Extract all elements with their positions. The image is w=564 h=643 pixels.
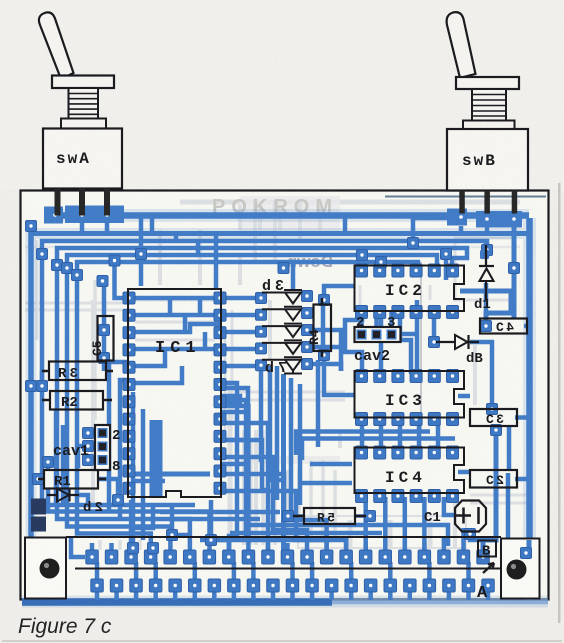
wire IC1 row6 — [129, 366, 182, 383]
label B with box — [478, 541, 496, 560]
swB pad group — [447, 209, 522, 228]
wire IC2-IC3 v2 — [400, 312, 411, 374]
wire IC1 right stair b — [222, 400, 246, 540]
mounting hole right box — [501, 539, 540, 599]
IC1 pad rows — [123, 292, 226, 494]
capacitor C4 — [480, 319, 527, 336]
diode d2 — [47, 489, 103, 517]
wire C1 bottom net — [470, 531, 483, 540]
label d7 (mirrored digit) — [265, 360, 287, 377]
wire d2 area drop — [46, 488, 51, 511]
wire IC1 bottom fan 1 — [129, 500, 134, 551]
capacitor C5 — [90, 316, 114, 361]
wire into right box — [521, 540, 532, 559]
wire d2 right stub — [79, 495, 88, 505]
wire swB right vertical — [512, 225, 517, 318]
wire R4 bottom net — [324, 354, 354, 395]
wire right lower vertical 1 — [483, 430, 496, 551]
switch swB — [447, 12, 528, 213]
wire left frame vertical — [28, 222, 34, 598]
label 1 with arrow — [483, 563, 494, 573]
wire R5 leads — [288, 514, 368, 518]
wire bus drop 1 — [150, 215, 155, 233]
wire IC2 right stub — [444, 254, 449, 280]
mounting hole left box — [25, 538, 66, 599]
wire IC1 right to diodes 4 — [220, 364, 258, 369]
wire R4 bottom drop — [316, 360, 321, 447]
wire bottom pad stubs down — [97, 590, 488, 600]
wire IC1 right stair a — [222, 383, 237, 551]
wire IC1 row3 — [129, 324, 220, 332]
IC1 — [128, 289, 221, 497]
edge connector bottom pad row — [91, 579, 495, 592]
wire bundle line D — [77, 262, 418, 273]
wire mid nested C2 — [222, 396, 240, 404]
IC2 — [355, 266, 465, 312]
edge connector region — [66, 537, 501, 569]
wire swB left pad stub — [459, 226, 464, 233]
wire diode row1 link — [220, 296, 258, 301]
wire lower mid h6 — [160, 510, 280, 515]
page edge shadow line right — [558, 183, 561, 623]
wire IC1 inner bottom horizontal 2 — [135, 479, 165, 484]
wire IC1 inner v1 — [131, 392, 136, 551]
wire R1 net — [46, 462, 51, 470]
wire staircase 3 — [220, 440, 268, 490]
wire top pad stubs up — [92, 528, 483, 551]
IC3 pad rows — [356, 370, 459, 426]
wire cav1 left link — [78, 446, 88, 468]
diode column d3-d7 — [262, 290, 302, 374]
wire C3 right to frame — [515, 415, 530, 420]
wire R1 right net — [98, 479, 118, 500]
connector top line — [66, 536, 501, 538]
wire dB left lead net — [432, 312, 437, 342]
wire d1 top — [484, 241, 489, 258]
wire bus drop 3 — [196, 241, 201, 256]
wire mid nested h4 — [310, 462, 352, 467]
wire C2 right to frame — [515, 477, 530, 482]
wire IC2 notch to IC3 — [415, 300, 420, 374]
switch swA — [39, 12, 122, 215]
wire IC1 inner bottom horizontal — [129, 472, 210, 477]
wire IC1 inner v2 — [141, 409, 146, 540]
wire lower mid h7 — [170, 517, 260, 522]
wire mid nested h5 — [300, 481, 352, 486]
wire lower mid horizontals — [48, 503, 195, 508]
diode d1 — [474, 245, 494, 313]
resistor R4 — [307, 298, 331, 357]
wire IC1 right to diodes 2 — [220, 330, 258, 335]
wire diode col drop 1 — [259, 370, 264, 462]
trace halos — [22, 216, 548, 602]
dark square pair lower-left — [31, 499, 46, 532]
wire staircase 1 — [220, 406, 248, 551]
wire IC1 row1 — [129, 296, 220, 301]
connector mid line — [75, 568, 501, 570]
wire diode right link 4 — [307, 364, 341, 371]
wire C4 right to frame — [524, 324, 530, 329]
wire bus drop 4 — [214, 233, 219, 289]
wire mid vertical v1 — [289, 378, 294, 516]
resistor R5 — [293, 508, 366, 526]
wire top bus T2 — [31, 231, 527, 236]
wire cav2 right — [398, 332, 417, 337]
wire staircase 2 — [220, 423, 268, 551]
wire long vertical x283 — [281, 374, 286, 551]
connector cav1 — [53, 425, 120, 475]
wire staircase 5 — [222, 474, 327, 551]
wire mid vertical v2 — [298, 384, 303, 505]
wire C3-C2 vertical — [507, 426, 512, 470]
wire IC1 row jog 4 — [203, 332, 208, 349]
wire IC1 row4 — [129, 347, 220, 352]
wire bus drop 2 — [174, 233, 179, 241]
wire d1 bottom to C4 — [484, 283, 489, 326]
wire left vertical x42 — [42, 252, 210, 551]
wire lower right horizontal 2 — [230, 531, 382, 536]
wire diode right link 2 — [307, 311, 314, 316]
wire bundle line B — [57, 248, 467, 266]
wire IC1 left col v1 — [109, 362, 129, 511]
wire IC2 top pad feeds — [362, 255, 400, 269]
wire top bus T1 — [47, 212, 529, 219]
wire staircase 4 — [220, 457, 307, 551]
wire pad stub x114 — [115, 262, 130, 298]
wire IC1 left col v2 — [120, 380, 129, 519]
wire IC1 row jog 1 — [198, 298, 203, 315]
wire mid nested C1 — [222, 388, 248, 412]
wire left vertical x57 — [57, 263, 190, 551]
edge connector top pad row — [86, 550, 490, 564]
wire R4 through trace — [321, 300, 326, 355]
capacitor C2 — [470, 470, 517, 488]
wire IC1 row jog 2 — [168, 298, 173, 315]
wire R2 down link — [54, 409, 59, 505]
wire lower right horizontal 1 — [248, 525, 448, 546]
IC4 pad rows — [356, 446, 459, 503]
wire IC1 right to diodes 1 — [220, 313, 258, 318]
wire left vertical x67 — [67, 266, 170, 551]
wire right frame vertical — [526, 218, 533, 600]
scan crease line — [420, 262, 422, 430]
connector cav2 — [354, 315, 401, 365]
wire T1-T2 link — [343, 215, 348, 233]
wire lower mid h8 — [200, 538, 330, 543]
wire IC1 right to diodes 3 — [220, 347, 258, 352]
wire IC3-IC4 bundle 2 — [302, 439, 455, 461]
wire right column into C4 — [486, 293, 511, 324]
wire IC1 feed top — [139, 218, 144, 286]
wire bottom bus right — [332, 599, 548, 605]
resistor R3 — [42, 362, 113, 383]
wire inter-row stubs — [97, 562, 469, 580]
resistor R1 — [38, 470, 106, 490]
wire IC4 notch to C2 — [458, 470, 470, 475]
wire IC1 bottom fan 4 — [211, 500, 229, 551]
resistor R2 — [42, 391, 112, 411]
wire IC2 notch to right column — [460, 289, 514, 294]
wire R3 left pad link — [40, 371, 45, 386]
wire left vertical x77 — [77, 273, 151, 551]
swA pad group — [44, 206, 124, 224]
wire IC1 row jog 3 — [183, 315, 188, 332]
label d3 (mirrored digit) — [262, 278, 284, 295]
page bottom faint line — [2, 640, 562, 642]
wire d3 anode feed — [291, 262, 296, 290]
wire diode col drop 2 — [270, 366, 283, 480]
wire mid nested C3 — [222, 440, 248, 464]
ghost traces layer — [25, 196, 528, 643]
IC2 pad rows — [356, 264, 459, 319]
board outline — [21, 191, 549, 600]
wire diode right net — [307, 330, 341, 371]
wire swB mid pad drop — [485, 227, 490, 233]
wire left mid vertical — [61, 425, 66, 505]
wire bundle line A — [42, 241, 487, 257]
wire R4 top net — [324, 286, 354, 300]
diode dB — [436, 335, 483, 367]
capacitor C1 — [424, 501, 486, 532]
wire connector left stub — [71, 538, 85, 557]
wire bundle line C — [67, 255, 437, 267]
capacitor C3 — [470, 409, 517, 427]
wire IC4 bottom fans — [366, 497, 425, 551]
wire dB right net — [470, 342, 492, 409]
wire diode right link 3 — [307, 345, 341, 350]
wire IC3 notch to C3 — [458, 394, 470, 399]
wire staircase 6 — [222, 491, 346, 551]
wire IC1 row5 — [129, 349, 165, 366]
wire IC2-IC3 v1 — [379, 312, 384, 374]
wire cav2 wrap — [345, 312, 362, 374]
wire IC1 row2 — [129, 313, 220, 318]
wire C5 through trace — [102, 283, 107, 371]
wire swB left pad drop — [413, 218, 452, 240]
wire bottom bus left — [22, 598, 332, 606]
wire swA pad stubs — [82, 222, 107, 233]
wire IC1 bottom fan 2 — [131, 505, 153, 551]
IC3 — [355, 371, 465, 418]
wire IC1 inner vertical — [150, 420, 163, 496]
wire IC4 to C1 — [444, 497, 454, 515]
misc trace pads — [26, 221, 530, 558]
wire right lower vertical 2 — [508, 473, 524, 552]
wire cav2 pin feeds — [362, 312, 392, 332]
wire IC3-IC4 v3 — [400, 419, 419, 451]
wire IC3-IC4 v1 — [362, 419, 438, 451]
wire IC1 bottom fan 3 — [172, 505, 190, 535]
wire diode col drop 3 — [275, 366, 280, 500]
IC4 — [355, 448, 465, 494]
wire IC3-IC4 bundle 1 — [296, 432, 430, 456]
wire cav1 pads — [88, 433, 96, 460]
